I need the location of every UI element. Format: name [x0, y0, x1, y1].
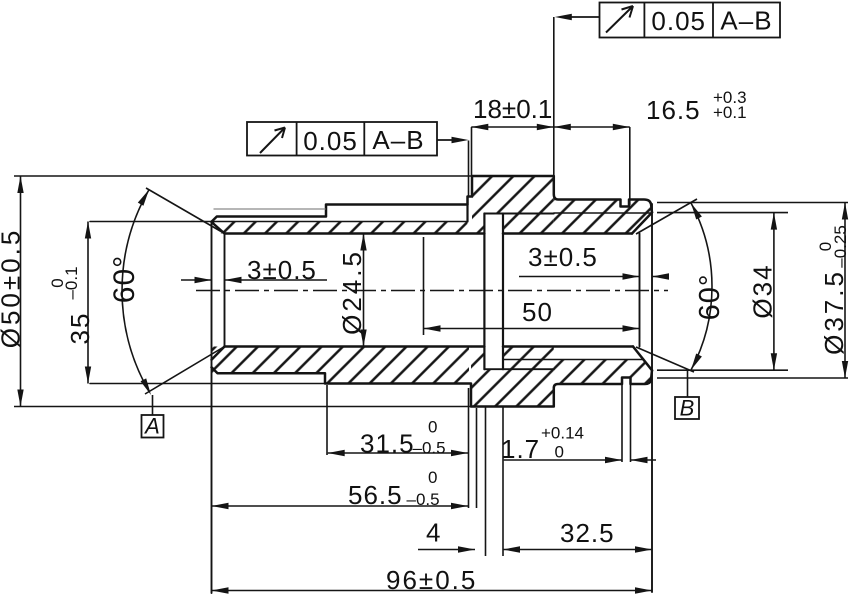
60 left legs [145, 188, 225, 394]
svg-text:0: 0 [428, 468, 437, 487]
svg-text:Ø24.5: Ø24.5 [337, 249, 367, 335]
ext verticals below part [326, 385, 328, 455]
internal chamfer bottom-left [212, 347, 225, 360]
dia34 dim line [773, 213, 775, 371]
dim 96 line [212, 590, 653, 592]
right face [651, 204, 653, 592]
svg-text:16.5: 16.5 [646, 95, 701, 125]
svg-text:B: B [680, 396, 695, 421]
dim 3 left line [181, 279, 327, 281]
hatch bottom-left wall [212, 347, 470, 384]
datum A [142, 395, 164, 439]
svg-text:50: 50 [522, 297, 553, 327]
hatch top-left wall band [212, 222, 468, 234]
dim 1.7 line [504, 459, 656, 461]
dim 18 and 16.5 line [471, 126, 630, 128]
svg-text:18±0.1: 18±0.1 [473, 94, 552, 124]
dim 3 right line [519, 276, 666, 278]
ext/OD line 383.5 left [90, 383, 469, 385]
dia50 ext bottom [14, 406, 471, 408]
dim 35 line [87, 222, 89, 384]
svg-text:56.5: 56.5 [348, 480, 403, 510]
svg-text:0: 0 [816, 242, 835, 251]
thin line right bottom 359.5 [504, 359, 643, 361]
slot right wall [502, 214, 504, 370]
chamfer base circle left [224, 234, 226, 347]
faint thread crest ghost line [214, 208, 325, 210]
svg-text:35: 35 [65, 312, 95, 345]
bore bottom line [225, 345, 634, 348]
svg-text:Ø37.5: Ø37.5 [819, 269, 849, 355]
svg-text:4: 4 [426, 518, 441, 548]
bottom outline: left end with chamfer, step, flange, right section [212, 367, 653, 406]
svg-text:0: 0 [48, 278, 67, 287]
dia34 ext lines [657, 213, 788, 371]
svg-text:3±0.5: 3±0.5 [247, 255, 317, 285]
svg-text:3±0.5: 3±0.5 [528, 242, 598, 272]
dia50 ext top [14, 175, 472, 177]
centerline [196, 290, 668, 292]
seat cone top-right [632, 213, 652, 234]
slot top line [484, 213, 553, 215]
60 right arc [691, 203, 712, 370]
tolerance frame left [247, 122, 462, 156]
svg-text:–0.5: –0.5 [407, 490, 440, 509]
thin line right top 213 [554, 212, 650, 214]
thread root line left (thin) [90, 221, 468, 223]
tolerance frame top [562, 3, 780, 38]
svg-text:60°: 60° [694, 274, 726, 321]
datum B [675, 371, 699, 421]
part outline: left face [211, 222, 213, 593]
hatch flange bottom [471, 347, 554, 407]
svg-text:0.05: 0.05 [651, 6, 706, 36]
svg-text:+0.1: +0.1 [713, 103, 747, 122]
svg-text:Ø34: Ø34 [748, 263, 778, 318]
svg-text:–0.5: –0.5 [413, 439, 446, 458]
dim 56.5 line [212, 505, 469, 507]
svg-text:0: 0 [555, 443, 564, 462]
svg-text:A: A [143, 414, 160, 439]
left end top OD with corner chamfer [212, 176, 653, 222]
svg-text:A–B: A–B [720, 6, 772, 36]
dia37.5 dim line [844, 203, 846, 379]
internal chamfer top-left [212, 222, 225, 234]
hatch right-bottom wall [554, 360, 652, 385]
dia24.5 dim line [363, 234, 365, 347]
dim 4 / 32.5 line [418, 549, 652, 551]
dia37.5 ext lines [657, 203, 848, 379]
slot bottom line [484, 368, 553, 370]
dim 50 line [424, 328, 640, 330]
60 left arc [122, 190, 149, 392]
cone base circle right [639, 234, 641, 347]
dia50 dim line [20, 176, 22, 407]
dim 31.5 line [328, 452, 468, 454]
svg-text:31.5: 31.5 [360, 429, 415, 459]
svg-text:60°: 60° [108, 255, 141, 303]
svg-text:+0.14: +0.14 [541, 424, 584, 443]
svg-text:Ø50±0.5: Ø50±0.5 [0, 228, 26, 349]
ext verticals above part [471, 127, 473, 176]
svg-text:A–B: A–B [372, 125, 424, 155]
svg-text:1.7: 1.7 [501, 434, 540, 464]
60 right legs [636, 199, 697, 372]
hatch right-top wall [554, 200, 652, 234]
slot left wall [483, 214, 485, 370]
ext 50 left vertical [423, 237, 425, 335]
svg-text:0: 0 [428, 418, 437, 437]
hatch flange top [472, 176, 554, 234]
svg-text:96±0.5: 96±0.5 [386, 565, 477, 595]
bore top line [225, 232, 633, 235]
seat cone bottom-right [633, 347, 652, 371]
flange left face inner segment [466, 205, 468, 222]
svg-text:32.5: 32.5 [560, 518, 615, 548]
svg-text:0.05: 0.05 [303, 126, 358, 156]
